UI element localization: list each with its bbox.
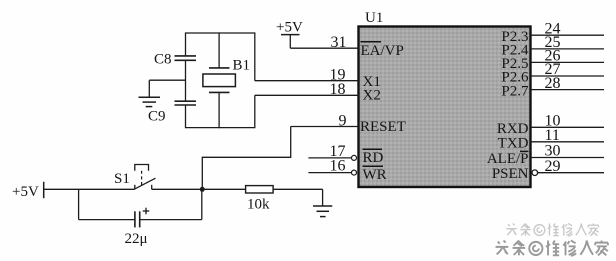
svg-text:WR: WR bbox=[363, 167, 387, 183]
svg-text:RESET: RESET bbox=[360, 119, 406, 135]
inversion bubble pin 17 bbox=[352, 155, 357, 160]
oscillator loop right wire to X1 bbox=[254, 32, 256, 80]
inversion bubble pin 16 bbox=[352, 170, 357, 175]
svg-text:16: 16 bbox=[330, 158, 346, 175]
oscillator loop top wire bbox=[186, 32, 255, 34]
wire pin 17 stub (RD) bbox=[308, 157, 351, 159]
capacitor C9 bbox=[148, 101, 196, 124]
crystal B1 bbox=[203, 32, 250, 128]
svg-text:RD: RD bbox=[363, 150, 384, 166]
wire pin 19 (X1) bbox=[255, 80, 359, 82]
wire pin 24 (P2.3) bbox=[531, 34, 605, 36]
wire pin 30 (ALE/P) bbox=[531, 157, 605, 159]
svg-text:U1: U1 bbox=[365, 10, 383, 26]
oscillator loop bottom wire bbox=[186, 127, 255, 129]
wire pin 18 (X2) bbox=[255, 94, 359, 96]
wire pin 9 (RESET) bbox=[291, 126, 359, 128]
junction node (reset) bbox=[200, 187, 205, 192]
svg-text:PSEN: PSEN bbox=[492, 166, 529, 182]
svg-text:X2: X2 bbox=[363, 88, 381, 104]
wire pin 16 stub (WR) bbox=[308, 172, 351, 174]
pin name WR (active low) bbox=[363, 166, 387, 183]
svg-text:TXD: TXD bbox=[498, 136, 529, 152]
svg-text:29: 29 bbox=[545, 158, 561, 175]
svg-text:31: 31 bbox=[331, 34, 347, 51]
svg-text:P2.7: P2.7 bbox=[501, 83, 529, 99]
pushbutton switch S1 bbox=[114, 165, 156, 190]
wire switch to junction bbox=[152, 188, 246, 190]
wire +5V rail to switch bbox=[44, 188, 135, 190]
electrolytic capacitor 22u bbox=[125, 208, 150, 247]
wire pin 28 (P2.7) bbox=[531, 89, 605, 91]
+5V power symbol (top, to pin 31) bbox=[276, 20, 303, 49]
wire pin 10 (RXD) bbox=[531, 126, 605, 128]
svg-text:B1: B1 bbox=[233, 57, 251, 73]
ground (oscillator) bbox=[139, 97, 161, 106]
svg-text:18: 18 bbox=[330, 81, 346, 98]
wire junction up to RESET pin 9 bbox=[202, 127, 290, 190]
svg-text:C9: C9 bbox=[148, 109, 166, 125]
pin name ALE/P (P active low) bbox=[487, 151, 529, 167]
svg-text:S1: S1 bbox=[114, 171, 130, 187]
svg-text:10k: 10k bbox=[247, 197, 270, 213]
capacitor C8 bbox=[154, 52, 196, 68]
svg-text:11: 11 bbox=[545, 127, 560, 144]
wire pin 27 (P2.6) bbox=[531, 75, 605, 77]
wire pin 29 bbox=[538, 172, 604, 174]
svg-text:+5V: +5V bbox=[12, 184, 39, 200]
pin name EA/VP (pin 31) bbox=[361, 42, 404, 59]
wire capacitor branch down-left bbox=[79, 189, 135, 219]
wire pin 31 bbox=[290, 47, 358, 49]
+5V power symbol (left, reset circuit) bbox=[12, 182, 44, 200]
svg-text:9: 9 bbox=[339, 112, 347, 129]
svg-text:EA/VP: EA/VP bbox=[361, 43, 404, 59]
svg-text:28: 28 bbox=[545, 75, 561, 92]
oscillator loop right wire to X2 bbox=[254, 95, 256, 128]
svg-text:+5V: +5V bbox=[276, 20, 303, 36]
wire to oscillator ground bbox=[149, 80, 185, 97]
wire pin 11 (TXD) bbox=[531, 141, 605, 143]
wire resistor to ground bbox=[273, 189, 323, 206]
svg-text:C8: C8 bbox=[154, 52, 172, 68]
resistor 10k bbox=[246, 186, 274, 213]
wire capacitor to junction riser bbox=[140, 189, 202, 219]
IC U1 body bbox=[359, 10, 531, 187]
svg-text:ALE/P: ALE/P bbox=[487, 151, 529, 167]
pin name RD (active low) bbox=[363, 149, 384, 166]
inversion bubble pin 29 (PSEN) bbox=[532, 170, 538, 176]
wire pin 25 (P2.4) bbox=[531, 48, 605, 50]
ground (reset resistor) bbox=[313, 206, 332, 217]
wire pin 26 (P2.5) bbox=[531, 61, 605, 63]
oscillator loop left wire segments bbox=[185, 32, 187, 128]
svg-text:22μ: 22μ bbox=[125, 231, 148, 247]
